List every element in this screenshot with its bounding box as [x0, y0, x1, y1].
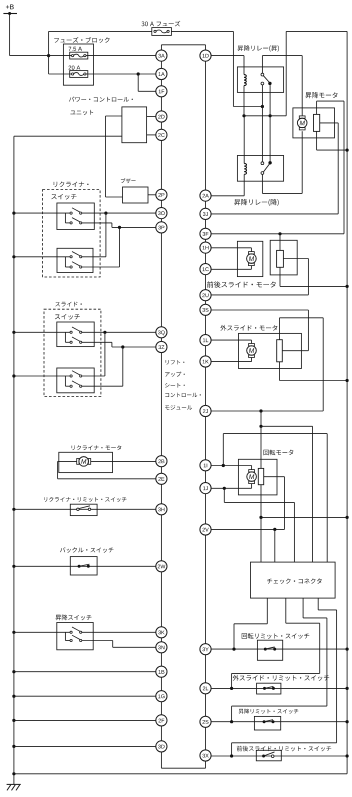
- wire 3F to resistor tops: [211, 233, 344, 235]
- wire R2 bottom to ground rail: [280, 267, 347, 286]
- rotation resistor R4: [258, 468, 263, 484]
- connector pin 3K: [156, 627, 167, 638]
- wire bottom return to right rail: [14, 773, 347, 775]
- node rail ground R4: [346, 516, 349, 519]
- relay K2 arm dot: [268, 161, 271, 164]
- slide SW3 row2 contacts: [70, 337, 82, 343]
- ground rail right: [346, 31, 348, 773]
- lift motor resistor R1: [314, 114, 320, 131]
- node K1 coil low: [242, 114, 245, 117]
- SW5 contacts: [77, 506, 91, 511]
- connector pin 2L: [200, 683, 211, 694]
- label buzzer: [121, 178, 136, 183]
- node rail ground SW11: [346, 754, 349, 757]
- fuse F3 20A: [69, 66, 88, 78]
- wire 1L to M3: [211, 340, 251, 343]
- relay K1 contact arm: [263, 76, 271, 86]
- wire R1 bottom to ground rail: [317, 131, 348, 150]
- wire K2 coil to 2A: [211, 174, 244, 196]
- SW7 row1 contacts: [70, 627, 82, 633]
- label recliner motor: [72, 445, 122, 450]
- node relay output left: [269, 114, 272, 117]
- rotation limit switch SW8: [257, 640, 282, 660]
- wire R1 top to 3F riser: [317, 101, 344, 234]
- connector pin 3P: [156, 222, 167, 233]
- wire junction to slide lower row2: [82, 347, 123, 386]
- SW10 contacts: [263, 720, 275, 724]
- connector pin 2V: [200, 524, 211, 535]
- right connector column bus: [205, 61, 207, 750]
- recliner SW2 bracket: [65, 257, 70, 267]
- connector pin 2F: [156, 715, 167, 726]
- front-rear slide limit switch SW11: [256, 750, 281, 761]
- node 2J feed to R4: [259, 409, 262, 412]
- connector pin 1B: [156, 666, 167, 677]
- label fuse block: [54, 37, 109, 43]
- connector pin 1I: [200, 460, 211, 471]
- label slide switch: [55, 302, 82, 320]
- wire bus to lift switch row: [14, 631, 70, 633]
- connector pin 3Y: [200, 644, 211, 655]
- SW7 bracket: [65, 632, 70, 640]
- recliner switch SW1 upper box: [57, 203, 94, 230]
- connector pin 2S: [200, 716, 211, 727]
- front-rear slide motor box: [237, 241, 262, 276]
- connector pin 3O: [156, 208, 167, 219]
- connector pin 3F: [200, 228, 211, 239]
- wire CN1 to outer slide limit switch: [232, 598, 320, 688]
- wire 1I to M4: [211, 466, 252, 470]
- label rotation motor: [264, 450, 294, 456]
- wire CN1 to rotation limit switch: [234, 598, 267, 649]
- wire bus to slide upper row: [14, 331, 70, 333]
- node rail ground SW10: [346, 720, 349, 723]
- label lift relay down: [234, 199, 279, 206]
- node 2L junction: [230, 687, 233, 690]
- node rail ground R3: [346, 379, 349, 382]
- wire 2V branch to check connector: [274, 529, 276, 562]
- node 1I branch: [222, 464, 225, 467]
- slide SW4 bracket: [65, 376, 70, 386]
- connector pin 2E: [156, 473, 167, 484]
- rotation motor box: [238, 459, 277, 495]
- wire recliner row2 to 3P: [82, 223, 156, 228]
- buckle switch SW6: [70, 557, 97, 575]
- wire 3D to 3X link: [161, 752, 205, 768]
- wire R2 tap to 2U: [211, 259, 308, 295]
- wire K1 NO to K2 NO: [261, 85, 263, 162]
- wire 3X through SW11 to rail: [211, 755, 347, 757]
- wire ground bus to U1: [14, 135, 122, 137]
- wire bus to recliner upper row: [14, 212, 70, 214]
- outer slide resistor R3: [277, 340, 283, 362]
- connector pin 1L: [200, 335, 211, 346]
- wire SW7 row2 to 3N: [82, 641, 156, 648]
- connector pin 1F: [156, 86, 167, 97]
- recliner SW2 row2 contacts: [70, 262, 82, 268]
- recliner switch dashed enclosure: [43, 190, 101, 277]
- wire K1 arm to K2 arm: [269, 85, 271, 162]
- wire U1 to buzzer: [106, 116, 123, 197]
- wire K1 coil to output node: [243, 86, 245, 116]
- lift limit switch SW10: [254, 716, 280, 730]
- connector pin 2C: [156, 129, 167, 140]
- wire R4 feed branch to check connector: [261, 426, 313, 562]
- node slide row1 junction: [103, 331, 106, 334]
- node fuse-block feed junction: [47, 54, 50, 57]
- wire U1 to 2C: [147, 134, 156, 136]
- wire bus to 3D: [14, 745, 156, 747]
- node 1J branch: [223, 487, 226, 490]
- node 3Y junction: [232, 648, 235, 651]
- label 30 A fuse: [142, 21, 181, 27]
- connector pin 3N: [156, 642, 167, 653]
- recliner switch SW2 lower box: [57, 248, 93, 272]
- wire bus to 1G: [14, 695, 156, 697]
- label front-rear slide motor: [207, 281, 276, 288]
- connector pin 3X: [200, 750, 211, 761]
- node 3X junction: [230, 754, 233, 757]
- relay K2 NO contact: [261, 162, 264, 165]
- wire 1H to M2: [211, 248, 251, 252]
- connector pin 3Z: [156, 341, 167, 352]
- connector pin 2D: [156, 111, 167, 122]
- wire 20A fuse output to 1A: [49, 73, 156, 75]
- node 20A output branch: [137, 72, 140, 75]
- connector pin 3J: [200, 208, 211, 219]
- wire MR1 to 2B: [91, 460, 156, 462]
- node bus to buckle switch: [12, 565, 15, 568]
- wire K1 common to lift motor: [262, 56, 302, 116]
- slide switch SW4 lower box: [57, 368, 94, 393]
- node recliner row1 junction: [104, 212, 107, 215]
- node bus to 2F: [12, 719, 15, 722]
- relay K1 coil: [244, 75, 246, 86]
- connector pin 2U: [200, 290, 211, 301]
- wire 1J branch to check connector: [224, 488, 294, 562]
- lift relay (up) K1: [237, 67, 283, 93]
- wire R4 ground branch to rail: [261, 516, 347, 518]
- node 30A feed at K1 NO: [261, 105, 264, 108]
- wire 1K to M3: [211, 358, 251, 362]
- wire 1J to M4: [211, 484, 252, 489]
- fuse block box: [63, 44, 93, 85]
- connector pin 3H: [156, 504, 167, 515]
- recliner limit switch SW5: [70, 504, 97, 515]
- wire fuse feed riser and 30A branch: [49, 31, 152, 74]
- wire bus to slide lower row: [14, 375, 70, 377]
- lift switch SW7: [57, 623, 93, 650]
- connector pin 2J: [200, 405, 211, 416]
- front-rear resistor R2: [277, 250, 284, 267]
- slide switch SW3 upper box: [57, 322, 94, 347]
- label power control unit: [69, 97, 133, 115]
- wire 2S through SW10 to rail: [211, 721, 347, 723]
- wire branch to 1F: [138, 74, 156, 91]
- node rail ground SW9: [346, 687, 349, 690]
- recliner SW1 bracket: [65, 213, 70, 223]
- connector pin 3D: [156, 741, 167, 752]
- slide SW3 bracket: [65, 332, 70, 342]
- connector pin 1H: [200, 242, 211, 253]
- wire slide row2 to 3Z: [82, 342, 156, 347]
- wire 2L through SW9 to rail: [211, 687, 347, 689]
- power source +B: [3, 5, 17, 16]
- wire 30A fuse to relay area: [171, 31, 261, 106]
- check connector CN1: [251, 562, 336, 598]
- label check connector: [267, 578, 322, 584]
- SW11 contacts: [262, 752, 274, 758]
- connector pin 3S: [200, 304, 211, 315]
- wire MR1 to 2E: [58, 461, 156, 478]
- wire bus through SW5 to 3H: [14, 508, 156, 510]
- connector pin 1C: [200, 264, 211, 275]
- node rail ground R1: [346, 149, 349, 152]
- wire R3 tap to 3S: [211, 310, 308, 351]
- label outer slide limit switch: [233, 675, 330, 681]
- wire bus to recliner lower row: [14, 256, 70, 258]
- node bus to bottom return: [12, 772, 15, 775]
- node R4 ground branch: [259, 516, 262, 519]
- buzzer BZ1: [123, 187, 149, 203]
- wire bus to 2F: [14, 719, 156, 721]
- wire +B to fuse block: [10, 14, 49, 56]
- wire buzzer to 2P: [148, 194, 156, 196]
- wire R1 tap to 3J: [211, 123, 338, 214]
- fuse F1 30A: [152, 28, 172, 36]
- wire R4 tap to 2V: [211, 477, 284, 530]
- connector pin 2B: [156, 456, 167, 467]
- SW7 row2 contacts: [70, 635, 82, 641]
- label lift-up seat control module: [165, 360, 201, 410]
- wire bus through SW6 to 2W: [14, 565, 156, 567]
- wire 2J to resistor feeds: [211, 410, 323, 412]
- label rotation limit switch: [242, 633, 310, 639]
- label lift switch: [56, 615, 92, 621]
- connector pin 1A: [156, 68, 167, 79]
- outer slide limit switch SW9: [257, 683, 281, 694]
- wire recliner row1 to 3O: [82, 212, 156, 214]
- SW9 contacts: [263, 686, 275, 690]
- node 2S junction: [230, 720, 233, 723]
- connector pin 3Q: [156, 327, 167, 338]
- fuse F2 7.5A: [69, 47, 88, 59]
- label buckle switch: [60, 547, 114, 553]
- connector pin 1J: [200, 483, 211, 494]
- wire 1C to M2: [211, 266, 251, 270]
- left connector column bus: [160, 61, 162, 741]
- connector pin 1K: [200, 356, 211, 367]
- node 2V branch: [273, 528, 276, 531]
- lift motor M1: [297, 116, 307, 130]
- front-rear resistor box: [270, 240, 297, 275]
- wire slide row1 to 3Q: [82, 331, 156, 333]
- label lift motor: [305, 92, 337, 98]
- recliner SW2 row1 contacts: [70, 252, 82, 258]
- wire junction to lower row2: [82, 227, 120, 267]
- wire CN1 to lift limit switch: [232, 598, 327, 722]
- wire junction to lower row1: [82, 213, 106, 257]
- wire 1D to K1 coil: [211, 56, 244, 75]
- node bus to slide lower: [12, 374, 15, 377]
- wire 3Y through SW8 to rail: [211, 648, 347, 650]
- node R4 feed branch: [259, 425, 262, 428]
- wire 1I branch to check connector: [223, 434, 327, 562]
- lift relay (down) K2: [237, 156, 283, 182]
- label front-rear slide limit switch: [237, 746, 332, 752]
- rotation motor M4: [247, 470, 257, 484]
- slide switch dashed enclosure: [44, 309, 101, 396]
- node bus to 1G: [12, 695, 15, 698]
- recliner SW1 row2 contacts: [70, 218, 82, 224]
- power control unit U1: [122, 107, 147, 143]
- recliner motor MR1: [59, 452, 113, 472]
- wire junction to slide lower row1: [82, 332, 105, 376]
- label recliner switch: [51, 182, 88, 200]
- wire relay output to ground arch: [244, 31, 347, 115]
- outer slide motor M3: [247, 344, 257, 358]
- ground bus left: [13, 136, 15, 784]
- node bus to 3D: [12, 745, 15, 748]
- relay K2 coil: [244, 163, 246, 174]
- relay K1 contact common: [261, 56, 264, 76]
- connector pin 2W: [156, 561, 167, 572]
- wire CN1 to front-rear limit switch: [232, 598, 337, 756]
- wire R3 bottom to ground rail: [280, 362, 348, 381]
- wire 7.5A fuse output to 3A: [49, 55, 156, 57]
- ground symbol: [7, 784, 21, 790]
- front-rear slide motor M2: [247, 252, 257, 266]
- node bus to recliner limit switch: [12, 508, 15, 511]
- recliner SW1 row1 contacts: [70, 208, 82, 214]
- SW6 contacts: [78, 564, 90, 568]
- lift motor box: [293, 108, 335, 138]
- wire R4 bottom to check connector: [260, 485, 262, 562]
- label recliner limit switch: [44, 497, 126, 502]
- wire R2 top feed: [279, 234, 281, 251]
- wire output node to K2 coil: [243, 116, 245, 164]
- SW8 contacts: [264, 647, 276, 651]
- node rail ground R2: [346, 285, 349, 288]
- wire bus to 1B: [14, 671, 156, 673]
- wire 2J feed through R4: [260, 411, 262, 468]
- slide SW4 row1 contacts: [70, 371, 82, 377]
- slide SW3 row1 contacts: [70, 327, 82, 333]
- connector pin 1G: [156, 691, 167, 702]
- node bus to 1B: [12, 670, 15, 673]
- node bus to lift switch: [12, 631, 15, 634]
- connector pin 1D: [200, 50, 211, 61]
- wire R3 top to 2J: [280, 318, 324, 411]
- node slide row2 junction: [121, 345, 124, 348]
- connector pin 2P: [156, 189, 167, 200]
- outer slide motor box: [239, 333, 302, 368]
- motor MR1 symbol: [77, 457, 91, 467]
- slide SW4 row2 contacts: [70, 381, 82, 387]
- label lift limit switch: [239, 709, 299, 714]
- node rail ground SW8: [346, 648, 349, 651]
- wire K2 common to lift motor low side: [262, 131, 302, 193]
- wire 3A to 1D: [161, 45, 205, 50]
- node bus to slide upper: [12, 331, 15, 334]
- wire SW7 row1 to 3K: [82, 631, 156, 633]
- connector pin 2A: [200, 190, 211, 201]
- label lift relay up: [238, 45, 279, 52]
- connector pin 3A: [156, 50, 167, 61]
- node bus to recliner upper: [12, 212, 15, 215]
- node 3F to R2 top: [278, 232, 281, 235]
- node recliner row2 junction: [118, 226, 121, 229]
- wire U1 to 2D: [147, 116, 156, 118]
- label outer slide motor: [220, 325, 277, 331]
- node bus to recliner lower: [12, 255, 15, 258]
- relay K2 contact common: [261, 164, 270, 175]
- relay K1 NO contact: [261, 82, 264, 85]
